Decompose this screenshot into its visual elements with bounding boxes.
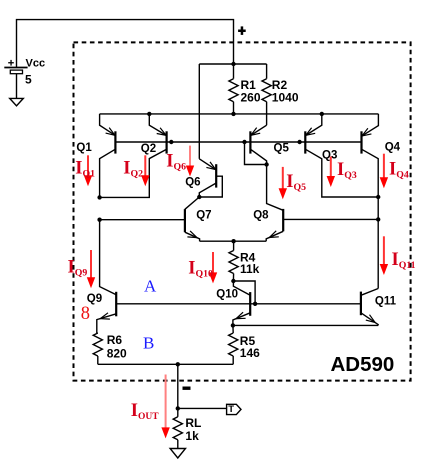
junction Q3 base xyxy=(297,140,301,144)
current arrow IQ1 xyxy=(84,155,92,186)
wire node A rail xyxy=(116,303,361,305)
svg-text:8: 8 xyxy=(81,304,90,324)
label 1040 xyxy=(272,91,299,105)
svg-text:260: 260 xyxy=(241,91,261,105)
label IQ6 xyxy=(166,152,186,173)
wire base rail xyxy=(115,141,361,143)
ground below RL xyxy=(170,449,185,459)
label 260 xyxy=(241,91,261,105)
node + junction xyxy=(231,62,235,66)
label R2 xyxy=(272,78,288,92)
resistor R2 xyxy=(262,64,271,125)
label Q3 xyxy=(322,150,337,162)
junction Q3/Q4 collectors xyxy=(376,195,380,199)
current arrow IQ9 xyxy=(87,250,95,288)
label IQ2 xyxy=(123,159,143,180)
svg-text:11k: 11k xyxy=(240,262,260,276)
svg-text:Q6: Q6 xyxy=(185,177,200,189)
junction tie to A rail xyxy=(253,302,257,306)
transistor Q8 xyxy=(266,165,378,242)
label AD590 xyxy=(331,353,395,376)
label Vcc xyxy=(26,58,46,70)
resistor R6 xyxy=(93,333,102,364)
label - (bottom terminal) xyxy=(183,387,191,390)
current arrow IQ3 xyxy=(327,157,335,188)
label Q5 xyxy=(274,143,290,155)
wire bottom rail R6-R5 xyxy=(98,363,233,365)
junction Q10 emitter / R5 top xyxy=(231,323,235,327)
current arrow IQ2 xyxy=(141,155,149,186)
svg-text:5: 5 xyxy=(25,73,32,87)
junction output drop xyxy=(176,362,180,366)
junction Q6 collector xyxy=(197,195,201,199)
svg-text:Q7: Q7 xyxy=(196,210,211,222)
output terminal T xyxy=(227,404,241,415)
svg-text:A: A xyxy=(144,277,157,296)
label Q2 xyxy=(141,143,156,155)
transistor Q3 xyxy=(305,114,378,197)
label R5 xyxy=(240,334,256,348)
svg-text:AD590: AD590 xyxy=(331,353,395,376)
svg-text:820: 820 xyxy=(107,347,127,361)
label 11k xyxy=(240,262,260,276)
label 8 (pin) xyxy=(81,304,90,324)
label R4 xyxy=(240,251,256,265)
svg-text:146: 146 xyxy=(240,346,260,360)
wire R4-to-A-rail tie xyxy=(233,281,255,304)
svg-text:Q3: Q3 xyxy=(322,150,337,162)
label node A xyxy=(144,277,157,296)
junction R4 bottom xyxy=(231,279,235,283)
label IQ1 xyxy=(75,159,95,180)
junction Q2 base xyxy=(169,140,173,144)
ground below battery xyxy=(10,98,24,105)
junction R4 top xyxy=(231,239,235,243)
svg-text:Q2: Q2 xyxy=(141,143,156,155)
label 5 xyxy=(25,73,32,87)
junction Q3 emitter xyxy=(320,112,324,116)
label IQ4 xyxy=(389,159,409,180)
svg-text:Q5: Q5 xyxy=(274,143,290,155)
junction Q5 base xyxy=(242,140,246,144)
label 1k xyxy=(185,429,199,443)
resistor RL xyxy=(173,408,182,448)
label 820 xyxy=(107,347,127,361)
label Q11 xyxy=(375,295,397,307)
transistor Q2 xyxy=(100,114,167,197)
current arrow IQ5 xyxy=(279,167,287,199)
junction Q5 collector xyxy=(264,162,268,166)
battery V1 Vcc xyxy=(4,60,27,99)
svg-text:Q8: Q8 xyxy=(253,210,269,222)
transistor Q4 xyxy=(362,114,379,289)
current arrow IQ6 xyxy=(186,146,194,177)
svg-text:Q10: Q10 xyxy=(216,289,238,301)
wire from battery + to node at top xyxy=(17,20,234,68)
resistor R5 xyxy=(229,325,238,364)
current arrow IQ11 xyxy=(380,236,388,275)
svg-text:Q1: Q1 xyxy=(76,142,92,154)
junction R1-rail xyxy=(231,112,235,116)
label Q4 xyxy=(385,142,401,154)
label R6 xyxy=(107,333,123,347)
label node B xyxy=(143,333,154,352)
wire emitter rail xyxy=(100,113,379,115)
svg-text:Q4: Q4 xyxy=(385,142,401,154)
wire to terminal xyxy=(178,407,227,409)
current arrow IQ4 xyxy=(380,154,388,189)
label Q8 xyxy=(253,210,269,222)
wire Q6 emitter feed xyxy=(198,64,200,159)
wire Q5 base-collector tie xyxy=(245,142,267,165)
junction Q7 base tap xyxy=(97,218,101,222)
junction Q1/Q2 collectors xyxy=(97,195,101,199)
transistor Q9 xyxy=(97,220,116,333)
label Q1 xyxy=(76,142,92,154)
svg-text:Q11: Q11 xyxy=(375,295,397,307)
label 146 xyxy=(240,346,260,360)
label IQ10 xyxy=(188,259,213,280)
junction Q2 emitter xyxy=(147,112,151,116)
svg-text:B: B xyxy=(143,333,154,352)
transistor Q11 xyxy=(361,289,378,326)
resistor R1 xyxy=(229,64,238,114)
label IQ9 xyxy=(68,258,88,279)
dashed box AD590 boundary xyxy=(74,42,411,380)
transistor Q6 xyxy=(199,159,216,197)
label Q10 xyxy=(216,289,238,301)
resistor R4 xyxy=(229,241,238,281)
current arrow IQ10 xyxy=(209,252,217,283)
label IQ11 xyxy=(392,250,416,271)
wire Q6 base-collector tie xyxy=(199,176,222,197)
label Q9 xyxy=(87,293,102,305)
transistor Q1 xyxy=(100,114,116,197)
wire top node horizontal xyxy=(199,63,266,65)
label IQ5 xyxy=(286,172,306,193)
svg-text:1040: 1040 xyxy=(272,91,299,105)
label R1 xyxy=(241,78,257,92)
svg-text:1k: 1k xyxy=(185,429,199,443)
label IQ3 xyxy=(337,160,357,181)
svg-text:R6: R6 xyxy=(107,333,123,347)
transistor Q10 xyxy=(233,281,250,325)
label + (top terminal) xyxy=(238,26,246,35)
label IOUT xyxy=(131,401,159,422)
transistor Q7 xyxy=(100,197,200,241)
label RL xyxy=(185,416,201,430)
label Q7 xyxy=(196,210,211,222)
wire Q7-Q8 emitter rail xyxy=(200,240,267,242)
junction Q8 base tap xyxy=(376,217,380,221)
svg-text:Vcc: Vcc xyxy=(26,58,46,70)
label Q6 xyxy=(185,177,200,189)
wire output drop xyxy=(177,364,179,408)
svg-text:T: T xyxy=(228,404,234,415)
wire node B rail xyxy=(233,324,378,326)
transistor Q5 xyxy=(250,125,266,164)
current arrow IOUT xyxy=(161,375,169,439)
junction output node xyxy=(176,406,180,410)
